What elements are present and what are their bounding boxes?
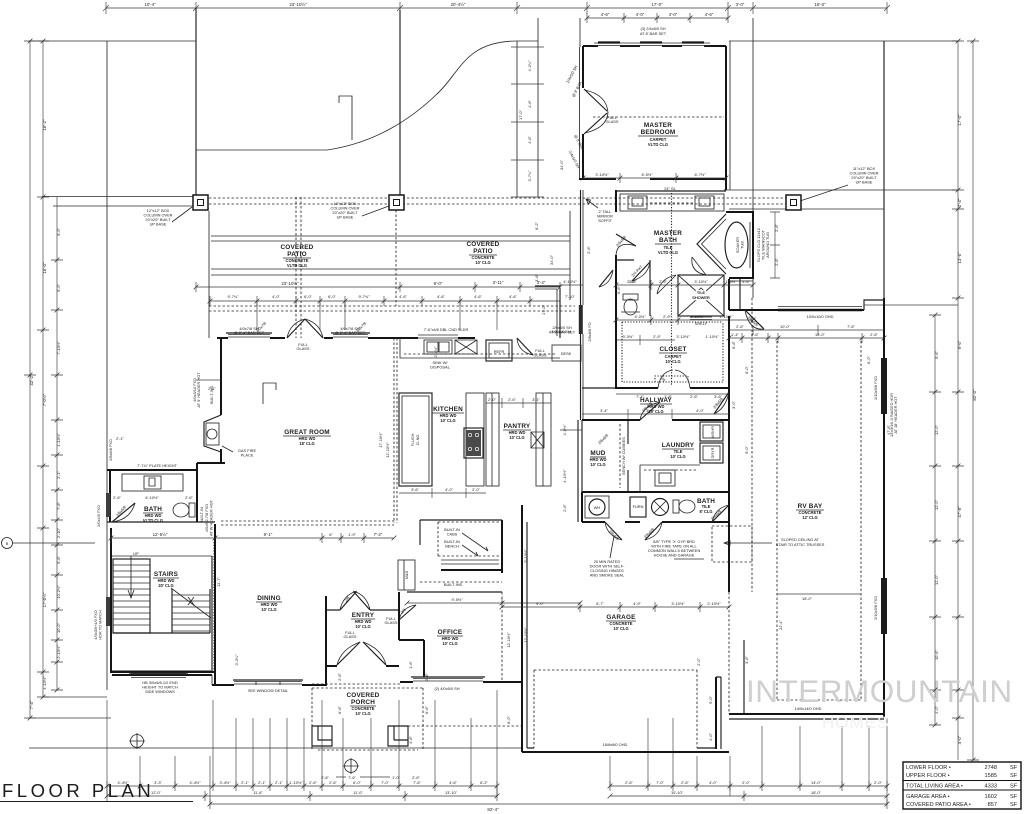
svg-text:10' CLG: 10' CLG [670, 454, 685, 459]
svg-text:PORCH: PORCH [351, 699, 375, 706]
attic dashed box [712, 526, 752, 562]
svg-text:12'-5½": 12'-5½" [153, 532, 168, 537]
office north wall [407, 591, 502, 593]
svg-text:7'-10½": 7'-10½" [56, 341, 61, 355]
kitchen sink [424, 340, 452, 354]
svg-text:AT 8' BAR SET: AT 8' BAR SET [640, 31, 667, 36]
svg-text:RV BAY: RV BAY [798, 503, 823, 510]
upper deck mid vertical [399, 10, 401, 195]
svg-text:3'-6": 3'-6" [714, 394, 722, 399]
svg-text:12'-0": 12'-0" [934, 574, 939, 585]
rv bay north wall [729, 309, 864, 311]
svg-text:2'-9": 2'-9" [663, 314, 671, 319]
svg-text:17'-10½": 17'-10½" [378, 432, 383, 448]
svg-text:2/8x6/8 FXD: 2/8x6/8 FXD [108, 439, 113, 461]
vanity sink 1 [628, 196, 647, 209]
svg-text:9'-1": 9'-1" [264, 532, 273, 537]
master bath north wall / vanity top [616, 190, 726, 192]
svg-text:DESK: DESK [561, 351, 572, 356]
bottom overall dimension 82'-4" [210, 799, 887, 809]
kitchen north wall / sliding door [400, 337, 475, 339]
svg-text:6'-8": 6'-8" [731, 341, 736, 349]
column C (x793) [786, 195, 801, 210]
bath vanity [122, 474, 183, 491]
stairs east dotted wall [213, 542, 215, 672]
bath west window bar [106, 493, 111, 517]
bath centerline dotted [671, 193, 673, 386]
patio extension drop lines [257, 301, 497, 330]
svg-text:3'-6": 3'-6" [744, 656, 749, 664]
svg-text:10' CLG: 10' CLG [442, 641, 457, 646]
svg-text:2/10x5/8 FXD: 2/10x5/8 FXD [873, 376, 878, 400]
svg-text:9'-0": 9'-0" [434, 281, 443, 286]
svg-text:3/0x5/0 SH: 3/0x5/0 SH [551, 329, 570, 334]
svg-text:4'-2¾": 4'-2¾" [527, 60, 532, 72]
svg-text:10'-0": 10'-0" [780, 324, 791, 329]
svg-text:GARAGE AREA •: GARAGE AREA • [906, 794, 950, 800]
right dim line 3 [929, 315, 941, 725]
great room south flush beam dashed [221, 521, 394, 525]
bottom left exterior line [29, 747, 522, 749]
garage pocket dims right [729, 325, 884, 335]
svg-text:M&S: M&S [404, 570, 409, 579]
garage south wall [522, 751, 729, 753]
left outer dimension line [24, 41, 36, 718]
water heater [585, 496, 609, 518]
svg-text:VLTD CLG: VLTD CLG [648, 142, 668, 147]
svg-text:2'-8": 2'-8" [586, 246, 591, 254]
fan coil [652, 499, 669, 516]
svg-text:DINING: DINING [257, 595, 281, 602]
svg-text:6'-7½": 6'-7½" [695, 172, 707, 177]
svg-text:10' CLG: 10' CLG [613, 626, 628, 631]
dryer [700, 443, 723, 463]
svg-text:4'-6": 4'-6" [601, 12, 610, 17]
svg-text:WSHR: WSHR [710, 426, 715, 438]
svg-text:10' CLG: 10' CLG [475, 260, 490, 265]
svg-text:PATIO: PATIO [473, 248, 493, 255]
svg-text:3'-1": 3'-1" [532, 397, 540, 402]
svg-text:2748: 2748 [985, 765, 997, 771]
svg-text:18' CLG: 18' CLG [299, 441, 314, 446]
svg-text:BUILT-INS: BUILT-INS [444, 582, 463, 587]
svg-text:4'-6": 4'-6" [509, 294, 517, 299]
svg-text:AT 18' HEADER HGT: AT 18' HEADER HGT [893, 396, 898, 434]
svg-text:BATH: BATH [659, 237, 677, 244]
patio french doors [287, 319, 323, 338]
svg-text:6'-0": 6'-0" [304, 294, 312, 299]
svg-text:6'-5½": 6'-5½" [642, 172, 654, 177]
vanity sink 2 [695, 196, 714, 209]
svg-text:3'-4½": 3'-4½" [220, 780, 232, 785]
svg-text:3'-3": 3'-3" [154, 780, 162, 785]
bedroom dashed ceiling break [593, 116, 724, 118]
svg-text:2'-10½": 2'-10½" [56, 645, 61, 659]
svg-text:4'-10½": 4'-10½" [42, 676, 47, 690]
upper floor line top right segment [517, 40, 538, 42]
vanity counter [620, 194, 724, 211]
svg-text:AT W HEADER HGT: AT W HEADER HGT [209, 499, 214, 536]
fireplace [204, 415, 221, 452]
svg-text:1602: 1602 [985, 794, 997, 800]
svg-text:B: B [6, 541, 9, 546]
furnace [630, 497, 646, 517]
svg-text:4'-0": 4'-0" [272, 294, 280, 299]
hallway east door [714, 392, 729, 414]
svg-text:7'-0½": 7'-0½" [42, 393, 47, 406]
svg-text:PATIO: PATIO [287, 251, 307, 258]
svg-text:SEE WINDOW DETAIL: SEE WINDOW DETAIL [248, 688, 289, 693]
svg-text:CABS: CABS [447, 532, 458, 537]
svg-text:4'-0": 4'-0" [669, 12, 678, 17]
stair bottom landing [113, 632, 210, 634]
svg-text:1'-10½": 1'-10½" [719, 314, 733, 319]
mid dim string [111, 533, 394, 543]
kitchen island [399, 393, 432, 486]
svg-text:9'-6": 9'-6" [934, 351, 939, 359]
hall-bath door [599, 270, 613, 287]
svg-text:13'-6": 13'-6" [957, 252, 962, 264]
left marker circle B [2, 538, 13, 549]
patio center dashed posts [296, 197, 396, 338]
mud room walls [582, 420, 628, 492]
stairs outer walls [111, 528, 215, 672]
patio ceiling dashed rows [211, 236, 570, 275]
bath door arc [112, 503, 135, 522]
svg-text:2'-6": 2'-6" [321, 775, 329, 780]
west long building line [106, 41, 108, 690]
garage door dashed [534, 670, 697, 748]
svg-text:82'-0": 82'-0" [972, 389, 977, 401]
svg-text:23'-10½": 23'-10½" [289, 2, 307, 7]
svg-text:2'-8": 2'-8" [774, 258, 779, 266]
svg-text:7'-6": 7'-6" [56, 502, 61, 510]
porch column left [312, 726, 332, 746]
area table box [903, 762, 1021, 809]
svg-text:COVERED PATIO AREA •: COVERED PATIO AREA • [906, 802, 971, 808]
svg-text:4'-0½": 4'-0½" [635, 314, 647, 319]
svg-text:SF: SF [1010, 773, 1018, 779]
master bedroom south wall [579, 178, 726, 180]
svg-text:13'-10": 13'-10" [445, 790, 458, 795]
svg-text:GLASS: GLASS [534, 353, 547, 358]
entry-office door [399, 605, 416, 620]
svg-text:GLASS: GLASS [297, 346, 310, 351]
svg-text:10' CLG: 10' CLG [355, 624, 370, 629]
office west jog [399, 640, 424, 677]
svg-text:3'-0": 3'-0" [731, 401, 736, 409]
svg-text:1'-4": 1'-4" [731, 332, 739, 337]
svg-text:6'-0": 6'-0" [328, 294, 336, 299]
svg-text:2'-6": 2'-6" [113, 495, 121, 500]
toilet room walls [616, 260, 650, 316]
svg-text:STAIR TO ATTIC TRUSSES: STAIR TO ATTIC TRUSSES [776, 542, 825, 547]
svg-text:2'-6": 2'-6" [751, 332, 759, 337]
laundry walls [582, 420, 729, 492]
svg-text:DRYR: DRYR [710, 447, 715, 458]
svg-text:4'-0": 4'-0" [709, 780, 717, 785]
svg-text:4'-0": 4'-0" [708, 733, 713, 741]
closet door arcs [658, 370, 690, 388]
svg-text:2'-1": 2'-1" [116, 436, 124, 441]
svg-text:4'-10½": 4'-10½" [562, 469, 567, 483]
entry doors [337, 642, 386, 665]
patio dim string 2 [210, 296, 560, 306]
svg-text:3'-10½": 3'-10½" [671, 601, 685, 606]
svg-text:GLASS: GLASS [344, 634, 357, 639]
tile shower [678, 275, 724, 316]
closet bottom dim row [616, 393, 729, 395]
pantry X shelf [531, 432, 544, 448]
svg-text:24" SL: 24" SL [664, 186, 676, 191]
master bedroom window sills [594, 43, 710, 46]
rv ohd dim [729, 333, 884, 343]
svg-text:2'-1": 2'-1" [208, 386, 216, 391]
svg-text:4'-6": 4'-6" [399, 294, 407, 299]
closet inner dotted shelving [622, 322, 723, 382]
east boundary wall [883, 41, 885, 718]
closet top dim row [616, 315, 753, 325]
garage man doors [605, 522, 662, 540]
svg-text:2'-4": 2'-4" [957, 198, 962, 207]
svg-text:1'-8": 1'-8" [664, 394, 672, 399]
svg-text:HDR TO MATCH: HDR TO MATCH [98, 610, 103, 640]
svg-text:7'-6": 7'-6" [348, 775, 356, 780]
svg-text:4'-6": 4'-6" [474, 294, 482, 299]
svg-text:6": 6" [329, 532, 333, 537]
svg-text:HOUSE AND GARAGE: HOUSE AND GARAGE [654, 553, 695, 558]
svg-text:8'-0": 8'-0" [506, 716, 511, 724]
kitchen bottom dim [399, 488, 486, 498]
svg-text:82'-4": 82'-4" [487, 807, 499, 812]
svg-text:14'-0": 14'-0" [811, 780, 822, 785]
tub alcove walls [726, 212, 753, 278]
svg-text:MASTER: MASTER [654, 230, 682, 237]
svg-text:UP BASE: UP BASE [856, 180, 873, 185]
svg-text:16'-0": 16'-0" [815, 332, 826, 337]
bath toilet [189, 503, 195, 517]
pocket door panel [579, 305, 583, 334]
svg-text:7'-6"x4/6 DBL CND SLDR: 7'-6"x4/6 DBL CND SLDR [424, 327, 469, 332]
range [464, 428, 483, 458]
linen hall west of bath [535, 286, 560, 338]
utility corridor walls [582, 492, 729, 522]
column B (x396) [389, 195, 404, 210]
upper floor line top left [29, 40, 196, 42]
bath3 door [712, 505, 729, 522]
pantry top dim row [486, 398, 551, 408]
svg-text:REFR: REFR [494, 349, 505, 354]
svg-text:20' CLG: 20' CLG [158, 583, 173, 588]
svg-text:18'-0": 18'-0" [802, 596, 813, 601]
svg-text:4'-6": 4'-6" [527, 136, 532, 144]
vertical line x580 (master wall ext) [579, 18, 581, 47]
svg-text:4'-6": 4'-6" [527, 100, 532, 108]
laundry counter [640, 465, 700, 492]
svg-text:7'-4": 7'-4" [29, 700, 34, 709]
svg-text:12'-10½": 12'-10½" [506, 632, 511, 648]
vertical line x538 [537, 18, 539, 197]
top second tier dimension line (master windows) [587, 13, 728, 23]
deck S-curve [327, 41, 517, 150]
svg-text:VLTD CLG: VLTD CLG [287, 263, 307, 268]
garage-rv opening [728, 522, 730, 592]
svg-text:2'-6": 2'-6" [562, 504, 567, 512]
dining south wall w/ windows [212, 684, 326, 686]
svg-text:OFFICE: OFFICE [438, 629, 463, 636]
desk [552, 345, 581, 361]
svg-text:4'-6": 4'-6" [408, 736, 413, 744]
svg-text:3'-9": 3'-9" [646, 408, 654, 413]
basement window below stairs [131, 674, 186, 678]
svg-text:4'-6": 4'-6" [449, 780, 457, 785]
svg-text:GARAGE: GARAGE [606, 614, 636, 621]
svg-text:2'-6": 2'-6" [681, 780, 689, 785]
svg-text:2'-6": 2'-6" [736, 324, 744, 329]
svg-text:AROUND TUB: AROUND TUB [765, 232, 770, 258]
svg-text:4'-0": 4'-0" [696, 408, 704, 413]
great room / kitchen divider dashed [394, 338, 397, 523]
svg-text:MUD: MUD [590, 450, 605, 457]
svg-text:2'-6": 2'-6" [508, 397, 516, 402]
svg-text:4333: 4333 [985, 784, 997, 790]
svg-text:1585: 1585 [985, 773, 997, 779]
svg-text:3'-0": 3'-0" [736, 2, 745, 7]
svg-text:4'-6": 4'-6" [437, 294, 445, 299]
svg-text:(2) 4/0x5/0 SH: (2) 4/0x5/0 SH [434, 686, 459, 691]
svg-text:6'-2": 6'-2" [480, 780, 488, 785]
svg-text:PANTRY: PANTRY [504, 423, 531, 430]
svg-text:TOTAL LIVING AREA •: TOTAL LIVING AREA • [906, 784, 963, 790]
svg-text:SF: SF [1010, 784, 1018, 790]
svg-text:2'-0": 2'-0" [472, 487, 480, 492]
svg-text:2'-1": 2'-1" [275, 780, 283, 785]
shower door arc [657, 275, 676, 294]
svg-text:6'-6": 6'-6" [337, 706, 342, 714]
svg-text:3'-0½": 3'-0½" [623, 334, 635, 339]
svg-text:4'-10½": 4'-10½" [563, 279, 577, 284]
entry south jambs [326, 665, 399, 667]
great room north wall with windows [217, 337, 400, 339]
svg-text:6'-0": 6'-0" [353, 780, 361, 785]
hallway-laundry door [640, 402, 660, 420]
svg-text:12'-0": 12'-0" [934, 499, 939, 510]
svg-text:7'-4": 7'-4" [636, 394, 644, 399]
svg-text:PLACE: PLACE [241, 453, 254, 458]
svg-text:12'-0": 12'-0" [934, 424, 939, 435]
header blocks on east wall [881, 358, 887, 414]
rv west lower wall [743, 640, 745, 714]
hallway walls [582, 388, 729, 420]
svg-text:4'-6": 4'-6" [705, 12, 714, 17]
svg-text:WH: WH [594, 505, 601, 510]
svg-text:1'-10½": 1'-10½" [705, 334, 719, 339]
svg-text:KITCHEN: KITCHEN [433, 406, 463, 413]
bath north wall [107, 469, 197, 471]
office north built-ins [420, 520, 502, 545]
svg-text:2'-0": 2'-0" [696, 658, 701, 666]
svg-text:3'-10½": 3'-10½" [595, 172, 609, 177]
bottom extension lines [107, 690, 887, 804]
svg-text:VLTD CLG: VLTD CLG [658, 250, 678, 255]
svg-text:16'-0": 16'-0" [42, 262, 47, 274]
bath3 toilet [673, 500, 679, 513]
svg-text:2'-0": 2'-0" [488, 397, 496, 402]
svg-text:UP BASE: UP BASE [150, 222, 167, 227]
svg-text:11'-7": 11'-7" [216, 577, 221, 587]
great room north windows [228, 335, 368, 338]
svg-text:7'-6": 7'-6" [413, 780, 421, 785]
stairs north wall [111, 555, 212, 557]
hallway bottom dims [560, 429, 582, 431]
roof flag mark upper [339, 96, 352, 140]
svg-text:10'-2½": 10'-2½" [56, 585, 61, 599]
svg-text:MASTER: MASTER [644, 122, 672, 129]
west wall window [106, 597, 110, 626]
svg-text:17'-0": 17'-0" [651, 2, 663, 7]
garage se step [715, 677, 717, 749]
svg-text:2'-6": 2'-6" [185, 495, 193, 500]
svg-text:4'-0": 4'-0" [636, 12, 645, 17]
bottom dimension string 2 [107, 791, 887, 801]
svg-text:TUB: TUB [740, 241, 745, 249]
svg-text:34'-0": 34'-0" [559, 159, 564, 170]
master bedroom north wall [583, 45, 726, 47]
svg-text:UPPER FLOOR •: UPPER FLOOR • [906, 773, 950, 779]
svg-text:FURN: FURN [633, 504, 644, 509]
svg-text:10'-4": 10'-4" [144, 2, 156, 7]
svg-text:2/0x4/0 FXD: 2/0x4/0 FXD [96, 505, 101, 527]
upper deck left vertical [195, 8, 197, 196]
bedroom french door arcs [585, 90, 608, 133]
covered porch dashed outline [312, 684, 522, 750]
svg-text:SHOWER: SHOWER [692, 295, 710, 300]
title underline [0, 801, 193, 803]
svg-text:CLOSET: CLOSET [659, 346, 686, 353]
svg-text:5'-0": 5'-0" [56, 284, 61, 292]
top dimension ticks [103, 5, 890, 11]
svg-text:2'-4½": 2'-4½" [433, 346, 438, 358]
svg-text:10' CLG: 10' CLG [590, 462, 605, 467]
svg-text:BATH: BATH [144, 506, 162, 513]
svg-text:10' CLG: 10' CLG [509, 435, 524, 440]
svg-text:1'-6½": 1'-6½" [726, 279, 738, 284]
bath west wall [109, 470, 111, 522]
svg-text:17'-0": 17'-0" [957, 114, 962, 126]
svg-text:2'-6": 2'-6" [870, 332, 878, 337]
entry west wall [325, 596, 327, 686]
svg-text:1'-0": 1'-0" [392, 775, 400, 780]
svg-text:3'-3¾": 3'-3¾" [234, 654, 239, 666]
tub dim ticks [770, 212, 780, 278]
svg-text:9'-0": 9'-0" [536, 601, 544, 606]
svg-text:2'-10": 2'-10" [56, 527, 61, 538]
office west wall [398, 592, 400, 640]
porch column right [388, 726, 408, 746]
right patio south edge line2 [729, 208, 884, 210]
svg-text:17'-0½": 17'-0½" [42, 592, 47, 607]
svg-text:COVERED: COVERED [466, 241, 499, 248]
survey crosshair left [131, 735, 144, 748]
svg-text:2'-10½": 2'-10½" [707, 601, 721, 606]
svg-text:2'-6": 2'-6" [337, 673, 342, 681]
svg-text:16'-2": 16'-2" [42, 119, 47, 131]
svg-text:2'-6": 2'-6" [412, 775, 420, 780]
svg-text:ENTRY: ENTRY [352, 612, 375, 619]
svg-text:3'-6": 3'-6" [534, 274, 539, 282]
bottom left vertical ticks [29, 697, 111, 718]
svg-text:4'-0": 4'-0" [445, 487, 453, 492]
